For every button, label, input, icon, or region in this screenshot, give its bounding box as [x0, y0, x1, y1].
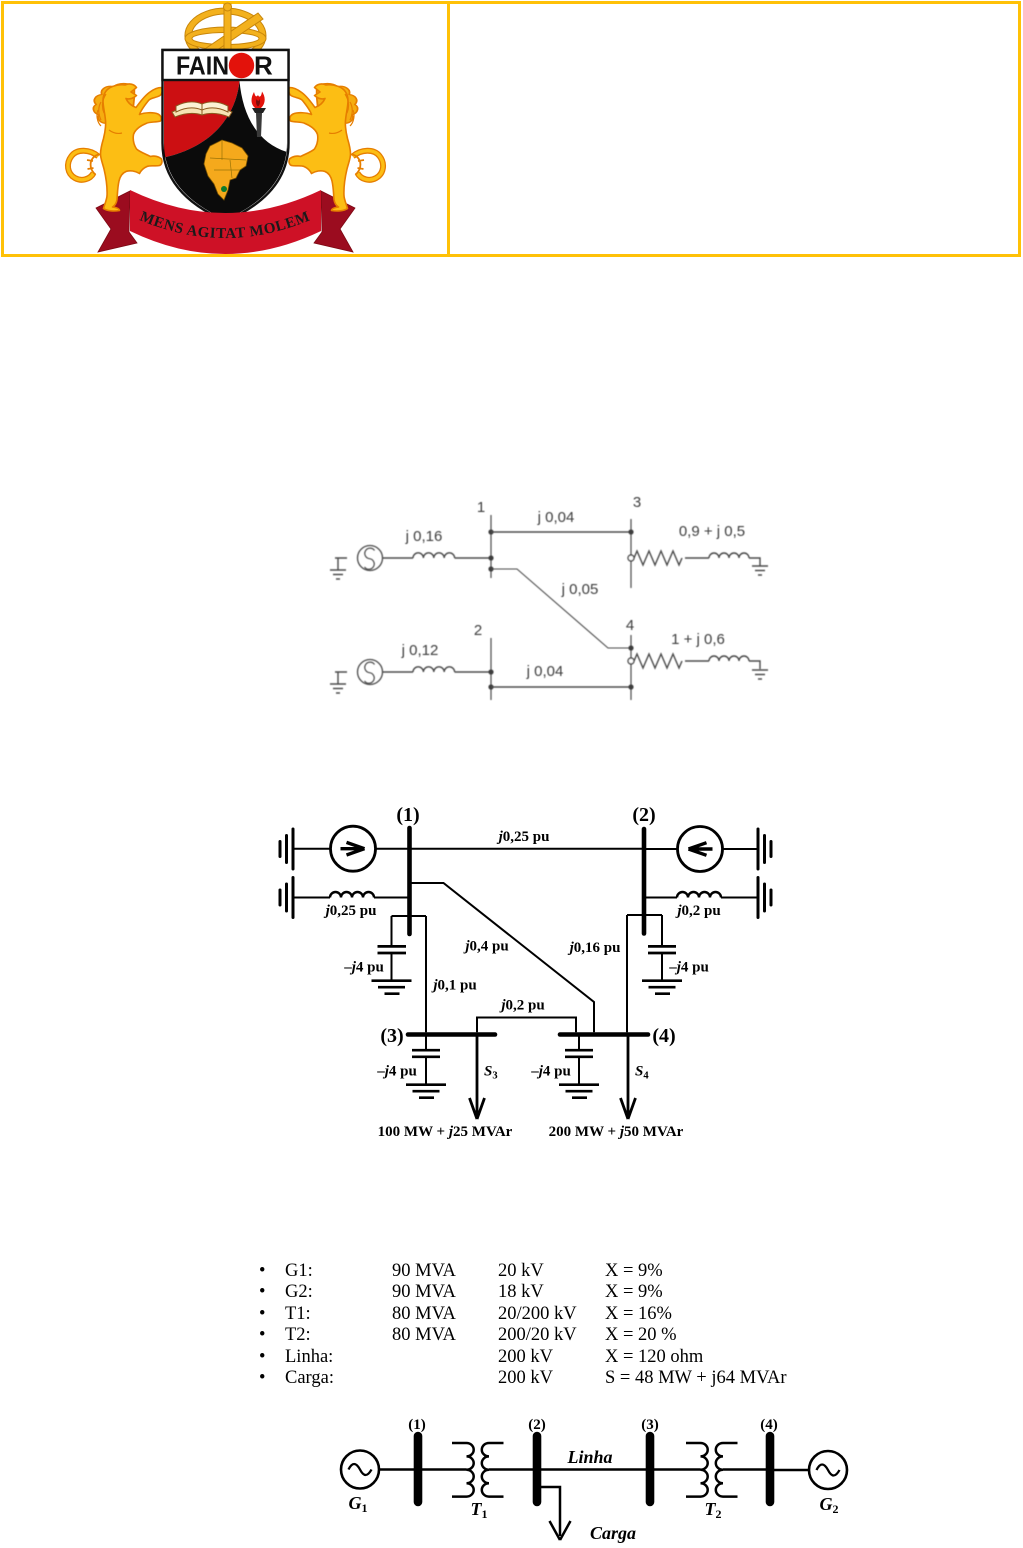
- lion left: [68, 84, 162, 211]
- capacitor -j4 bus4 lead: [578, 1036, 580, 1049]
- line 2-4 j0,04: [491, 686, 631, 688]
- header divider: [447, 4, 450, 254]
- svg-text:2: 2: [474, 622, 482, 639]
- bus 1: [490, 515, 492, 578]
- line bus2 to bus3: [537, 1468, 650, 1470]
- svg-text:–j4 pu: –j4 pu: [530, 1064, 571, 1080]
- transformer T1 secondary: [482, 1443, 504, 1497]
- FAINOR band: [163, 50, 289, 80]
- capacitor -j4 bus1 : lead: [391, 916, 393, 945]
- svg-text:–j4 pu: –j4 pu: [343, 960, 384, 976]
- svg-text:1: 1: [477, 499, 485, 516]
- ground under cap bus2: [642, 981, 682, 994]
- bus (4) bar: [766, 1436, 775, 1502]
- wire G1 to bus1: [376, 848, 410, 850]
- capacitor plates bus4: [565, 1050, 593, 1057]
- line 1-4 j0,05 diagonal: [491, 569, 631, 648]
- svg-text:Carga: Carga: [590, 1523, 636, 1543]
- terminal circle bus3: [628, 555, 634, 561]
- svg-text:j0,16 pu: j0,16 pu: [568, 940, 621, 956]
- capacitor plates bus3: [412, 1050, 440, 1057]
- inductor j0,12: [413, 667, 455, 672]
- carga arrowhead: [550, 1521, 571, 1540]
- generator G2 circle: [678, 827, 723, 872]
- ground right top (3 bars): [758, 829, 771, 869]
- load arrow S3: [470, 1036, 485, 1119]
- ground under cap bus3: [406, 1085, 446, 1098]
- wire bus2 to G2: [644, 848, 678, 850]
- generator G1 circle: [331, 826, 376, 871]
- connector stub bus2: [627, 914, 662, 916]
- torch: [252, 92, 266, 138]
- wire gnd to L: [293, 897, 330, 899]
- resistor load 3: [634, 551, 682, 565]
- svg-text:(1): (1): [396, 804, 419, 826]
- bus (3) bar: [646, 1436, 655, 1502]
- svg-text:j 0,04: j 0,04: [537, 509, 575, 526]
- bus (2) bar: [533, 1436, 542, 1502]
- inductor load 4: [709, 656, 749, 661]
- svg-text:j0,2 pu: j0,2 pu: [499, 998, 544, 1014]
- load arrow S4: [621, 1036, 636, 1119]
- book: [172, 102, 232, 117]
- ground left top (3 bars): [280, 829, 293, 869]
- capacitor plates bus2: [648, 946, 676, 953]
- inductor j0,16: [413, 553, 455, 558]
- svg-text:j 0,04: j 0,04: [526, 663, 564, 680]
- bus 4: [630, 635, 632, 700]
- svg-text:1 + j 0,6: 1 + j 0,6: [671, 631, 725, 648]
- ground under cap bus1: [372, 981, 412, 994]
- junction dot bus3: [628, 529, 633, 534]
- inductor load 3: [709, 553, 749, 558]
- svg-text:j 0,05: j 0,05: [561, 581, 599, 598]
- svg-text:G2: G2: [820, 1494, 839, 1516]
- generator source top: [358, 546, 383, 571]
- armillary sphere: [185, 3, 266, 63]
- shield body: [163, 50, 289, 221]
- transformer T1 primary: [452, 1443, 474, 1497]
- svg-text:(2): (2): [528, 1417, 546, 1433]
- wire: [685, 660, 709, 662]
- svg-text:200 MW + j50 MVAr: 200 MW + j50 MVAr: [549, 1124, 684, 1140]
- connector stub bus1: [392, 915, 427, 917]
- resistor load 4: [634, 654, 682, 668]
- svg-text:j0,25 pu: j0,25 pu: [497, 829, 550, 845]
- junction dots bus2: [488, 669, 493, 689]
- wire + ground load 3: [749, 558, 768, 575]
- inductor j0,25: [330, 892, 374, 898]
- line 2-4 j0,16: [626, 915, 628, 1032]
- generator G2 circle: [809, 1451, 847, 1489]
- red quarter: [164, 81, 240, 158]
- ground right row2: [758, 878, 771, 918]
- bus (2) bar: [642, 829, 647, 934]
- bus 3: [630, 519, 632, 588]
- line 1-4 j0,4 (stub+diagonal): [410, 883, 595, 1032]
- arrow right inside G1: [341, 842, 365, 855]
- wire G2 to gnd: [723, 848, 759, 850]
- wire: [685, 557, 709, 559]
- sine inside G2: [817, 1465, 840, 1476]
- wire T1 to bus2: [489, 1468, 537, 1470]
- capacitor -j4 bus2 : lead: [661, 915, 663, 945]
- wire G1 to bus1: [379, 1468, 418, 1470]
- arrow left inside G2: [689, 843, 713, 856]
- terminal circle bus4: [628, 658, 634, 664]
- black region: [164, 81, 287, 220]
- wire bus4 to G2: [770, 1469, 809, 1471]
- capacitor -j4 bus3 lead: [425, 1036, 427, 1049]
- svg-text:3: 3: [633, 494, 641, 511]
- wire L1 to bus 1: [455, 557, 491, 559]
- line 1-2 j0,25: [410, 848, 645, 850]
- wire gen2 to L2: [383, 671, 414, 673]
- ground under cap bus4: [559, 1085, 599, 1098]
- svg-text:–j4 pu: –j4 pu: [376, 1064, 417, 1080]
- bus (1) bar: [414, 1436, 423, 1502]
- capacitor lower lead bus3: [425, 1057, 427, 1084]
- wire gnd to G1: [293, 848, 331, 850]
- wire L to bus1: [374, 897, 410, 899]
- ground (gen 1): [330, 558, 347, 579]
- svg-text:T1: T1: [471, 1499, 488, 1521]
- svg-text:G1: G1: [349, 1493, 368, 1515]
- bus (4) bar: [560, 1032, 648, 1037]
- svg-text:j 0,12: j 0,12: [401, 642, 439, 659]
- ground left row2: [280, 878, 293, 918]
- line 1-3 j0,1: [425, 916, 427, 1032]
- capacitor lower lead bus2: [661, 953, 663, 980]
- transformer T2 secondary: [716, 1443, 738, 1497]
- svg-text:S4: S4: [635, 1064, 649, 1082]
- svg-text:j0,2 pu: j0,2 pu: [675, 903, 720, 919]
- inductor j0,2: [677, 892, 721, 898]
- svg-text:(4): (4): [652, 1025, 675, 1047]
- wire bus1 to T1: [418, 1468, 467, 1470]
- svg-text:Linha: Linha: [566, 1447, 612, 1467]
- capacitor plates bus1: [378, 946, 407, 953]
- svg-text:j0,25 pu: j0,25 pu: [324, 903, 377, 919]
- capacitor lower lead bus4: [578, 1057, 580, 1084]
- bus 2: [490, 638, 492, 700]
- bus (1) bar: [407, 828, 412, 934]
- svg-text:(4): (4): [760, 1417, 778, 1433]
- svg-text:(3): (3): [380, 1025, 403, 1047]
- wire T2 to bus4: [723, 1468, 770, 1470]
- generator source bottom: [358, 660, 383, 685]
- svg-text:j0,1 pu: j0,1 pu: [431, 978, 476, 994]
- svg-text:0,9 + j 0,5: 0,9 + j 0,5: [679, 523, 745, 540]
- carga tap: [541, 1487, 560, 1536]
- ribbon end left: [96, 191, 137, 252]
- map of Bahia: [204, 140, 248, 200]
- svg-text:4: 4: [626, 617, 634, 634]
- svg-text:100 MW + j25 MVAr: 100 MW + j25 MVAr: [378, 1124, 513, 1140]
- line 1-3 j0,04: [491, 531, 631, 533]
- svg-text:T2: T2: [705, 1499, 722, 1521]
- capacitor lower lead: [391, 953, 393, 980]
- bus (3) bar: [408, 1032, 495, 1037]
- line 3-4 j0,2: [477, 1018, 576, 1033]
- svg-text:(1): (1): [408, 1417, 426, 1433]
- generator G1 circle: [341, 1451, 379, 1489]
- transformer T2 primary: [686, 1443, 708, 1497]
- wire bus2 to L right: [644, 897, 677, 899]
- wire L2 to bus 2: [455, 671, 491, 673]
- junction dots bus4: [628, 645, 633, 689]
- wire + ground load 4: [749, 661, 768, 679]
- wire gen1 to L1: [383, 557, 414, 559]
- svg-text:S3: S3: [484, 1064, 498, 1082]
- svg-text:–j4 pu: –j4 pu: [668, 960, 709, 976]
- lion right (mirror): [289, 84, 383, 211]
- ribbon band: [130, 190, 321, 254]
- wire bus3 to T2: [650, 1468, 701, 1470]
- svg-text:(2): (2): [632, 804, 655, 826]
- junction dots bus1: [488, 529, 493, 571]
- svg-text:(3): (3): [641, 1417, 659, 1433]
- ground (gen 2): [330, 672, 347, 693]
- svg-text:j 0,16: j 0,16: [405, 528, 443, 545]
- ribbon end right: [314, 191, 355, 252]
- svg-text:j0,4 pu: j0,4 pu: [463, 939, 508, 955]
- sine inside G1: [349, 1464, 372, 1475]
- wire L to gnd right: [721, 897, 758, 899]
